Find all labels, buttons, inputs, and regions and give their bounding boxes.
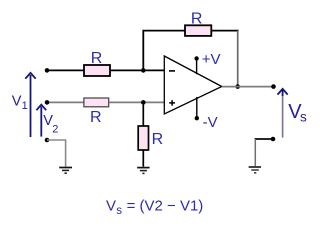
arrow V1 bbox=[25, 73, 35, 137]
svg-text:s: s bbox=[116, 205, 122, 217]
node (inverting input junction) bbox=[141, 68, 146, 73]
wire (R4 to ground) bbox=[142, 150, 144, 167]
resistor R1 (top input) bbox=[84, 65, 110, 76]
arrow V2 bbox=[36, 105, 46, 137]
wire (bottom input, left segment) bbox=[47, 101, 84, 103]
svg-text:R: R bbox=[91, 50, 103, 67]
resistor R3 (bottom input) bbox=[84, 98, 109, 107]
resistor R2 (feedback) bbox=[185, 25, 211, 36]
op-amp U1 bbox=[164, 56, 222, 114]
svg-text:+V: +V bbox=[202, 51, 221, 68]
arrow Vs bbox=[278, 89, 288, 138]
formula Vs = (V2 - V1) bbox=[106, 197, 203, 216]
node (output terminal) bbox=[271, 84, 276, 89]
svg-text:-V: -V bbox=[203, 114, 218, 131]
svg-text:R: R bbox=[191, 10, 203, 27]
svg-text:= (V2 − V1): = (V2 − V1) bbox=[127, 197, 204, 214]
label V2 bbox=[43, 113, 58, 135]
resistor R4 (non-inverting input to ground) bbox=[138, 126, 148, 150]
node (output junction) bbox=[235, 84, 240, 89]
wire (right ground run, horizontal) bbox=[255, 138, 273, 140]
wire (right ground run, vertical) bbox=[254, 139, 256, 166]
wire (-V supply stub) bbox=[196, 97, 198, 118]
ground (left) bbox=[59, 168, 72, 174]
node (non-inverting input junction) bbox=[141, 100, 146, 105]
node (right ground tap) bbox=[271, 137, 276, 142]
label V1 bbox=[12, 93, 28, 112]
wire (feedback: right of Rf) bbox=[211, 30, 238, 32]
node (+V terminal) bbox=[194, 56, 198, 60]
svg-text:2: 2 bbox=[52, 124, 58, 136]
wire (top input, left segment) bbox=[47, 69, 84, 71]
wire (output) bbox=[222, 86, 274, 88]
svg-text:R: R bbox=[90, 109, 102, 126]
wire (left ground run) bbox=[47, 140, 66, 167]
wire (bottom input, right segment to op-amp) bbox=[109, 101, 165, 103]
svg-text:V: V bbox=[106, 197, 116, 214]
node (-V terminal) bbox=[195, 116, 199, 120]
node (left ground tap) bbox=[45, 138, 50, 143]
svg-text:s: s bbox=[300, 109, 307, 124]
ground (right) bbox=[249, 167, 261, 173]
wire (top input, right segment to op-amp) bbox=[110, 69, 165, 71]
node (top input terminal) bbox=[45, 68, 50, 73]
svg-text:V: V bbox=[12, 93, 22, 109]
label Vs bbox=[288, 101, 307, 124]
wire (feedback: up and right to Rf) bbox=[143, 31, 185, 71]
wire (+V supply stub) bbox=[196, 59, 198, 75]
wire (to grounding resistor) bbox=[142, 102, 144, 126]
svg-text:R: R bbox=[152, 131, 164, 148]
wire (feedback: down to output) bbox=[237, 31, 239, 87]
node (bottom input terminal) bbox=[45, 100, 50, 105]
svg-text:1: 1 bbox=[22, 100, 28, 112]
ground (below R4) bbox=[137, 168, 149, 174]
